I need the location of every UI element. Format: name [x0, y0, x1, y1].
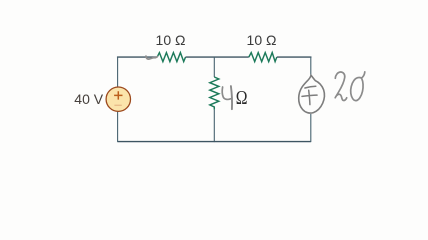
- resistor R1 10 Ω (top-left zigzag): [157, 53, 185, 62]
- wire top-middle segment: [186, 56, 249, 58]
- resistor R3 4 Ω (vertical zigzag): [210, 77, 219, 110]
- wire right branch upper (vertical): [310, 57, 312, 76]
- V2 plus sign (hand-drawn): [302, 90, 317, 104]
- V1 plus sign: [114, 91, 122, 99]
- wire left branch upper (vertical): [117, 57, 119, 88]
- svg-text:10 Ω: 10 Ω: [247, 32, 277, 48]
- V1 minus sign: [114, 104, 121, 106]
- svg-text:40 V: 40 V: [74, 91, 103, 107]
- wire top-left corner (left branch to node A): [117, 56, 157, 58]
- svg-text:10 Ω: 10 Ω: [156, 32, 186, 48]
- wire left branch lower (source to bottom rail): [117, 112, 119, 143]
- resistor R2 10 Ω (top-right zigzag): [249, 53, 277, 62]
- V2 minus sign (hand-drawn): [305, 86, 316, 88]
- wire bottom rail: [118, 141, 311, 143]
- wire node A to resistor R3 (middle branch upper): [213, 57, 215, 77]
- hand-drawn source V2 (blob outline): [299, 75, 325, 113]
- wire resistor R3 to bottom rail (middle branch lower): [213, 110, 215, 142]
- wire right branch lower (hand source to bottom rail): [310, 114, 312, 142]
- handwritten squiggle near R1 lead: [146, 56, 157, 59]
- wire top-right corner (to hand-drawn source): [277, 56, 312, 58]
- handwritten 20 (V2 value annotation): [335, 72, 347, 101]
- voltage source V1 40 V (circle): [106, 87, 130, 111]
- svg-text:Ω: Ω: [236, 86, 248, 108]
- handwritten 4 (R3 value annotation): [222, 87, 230, 99]
